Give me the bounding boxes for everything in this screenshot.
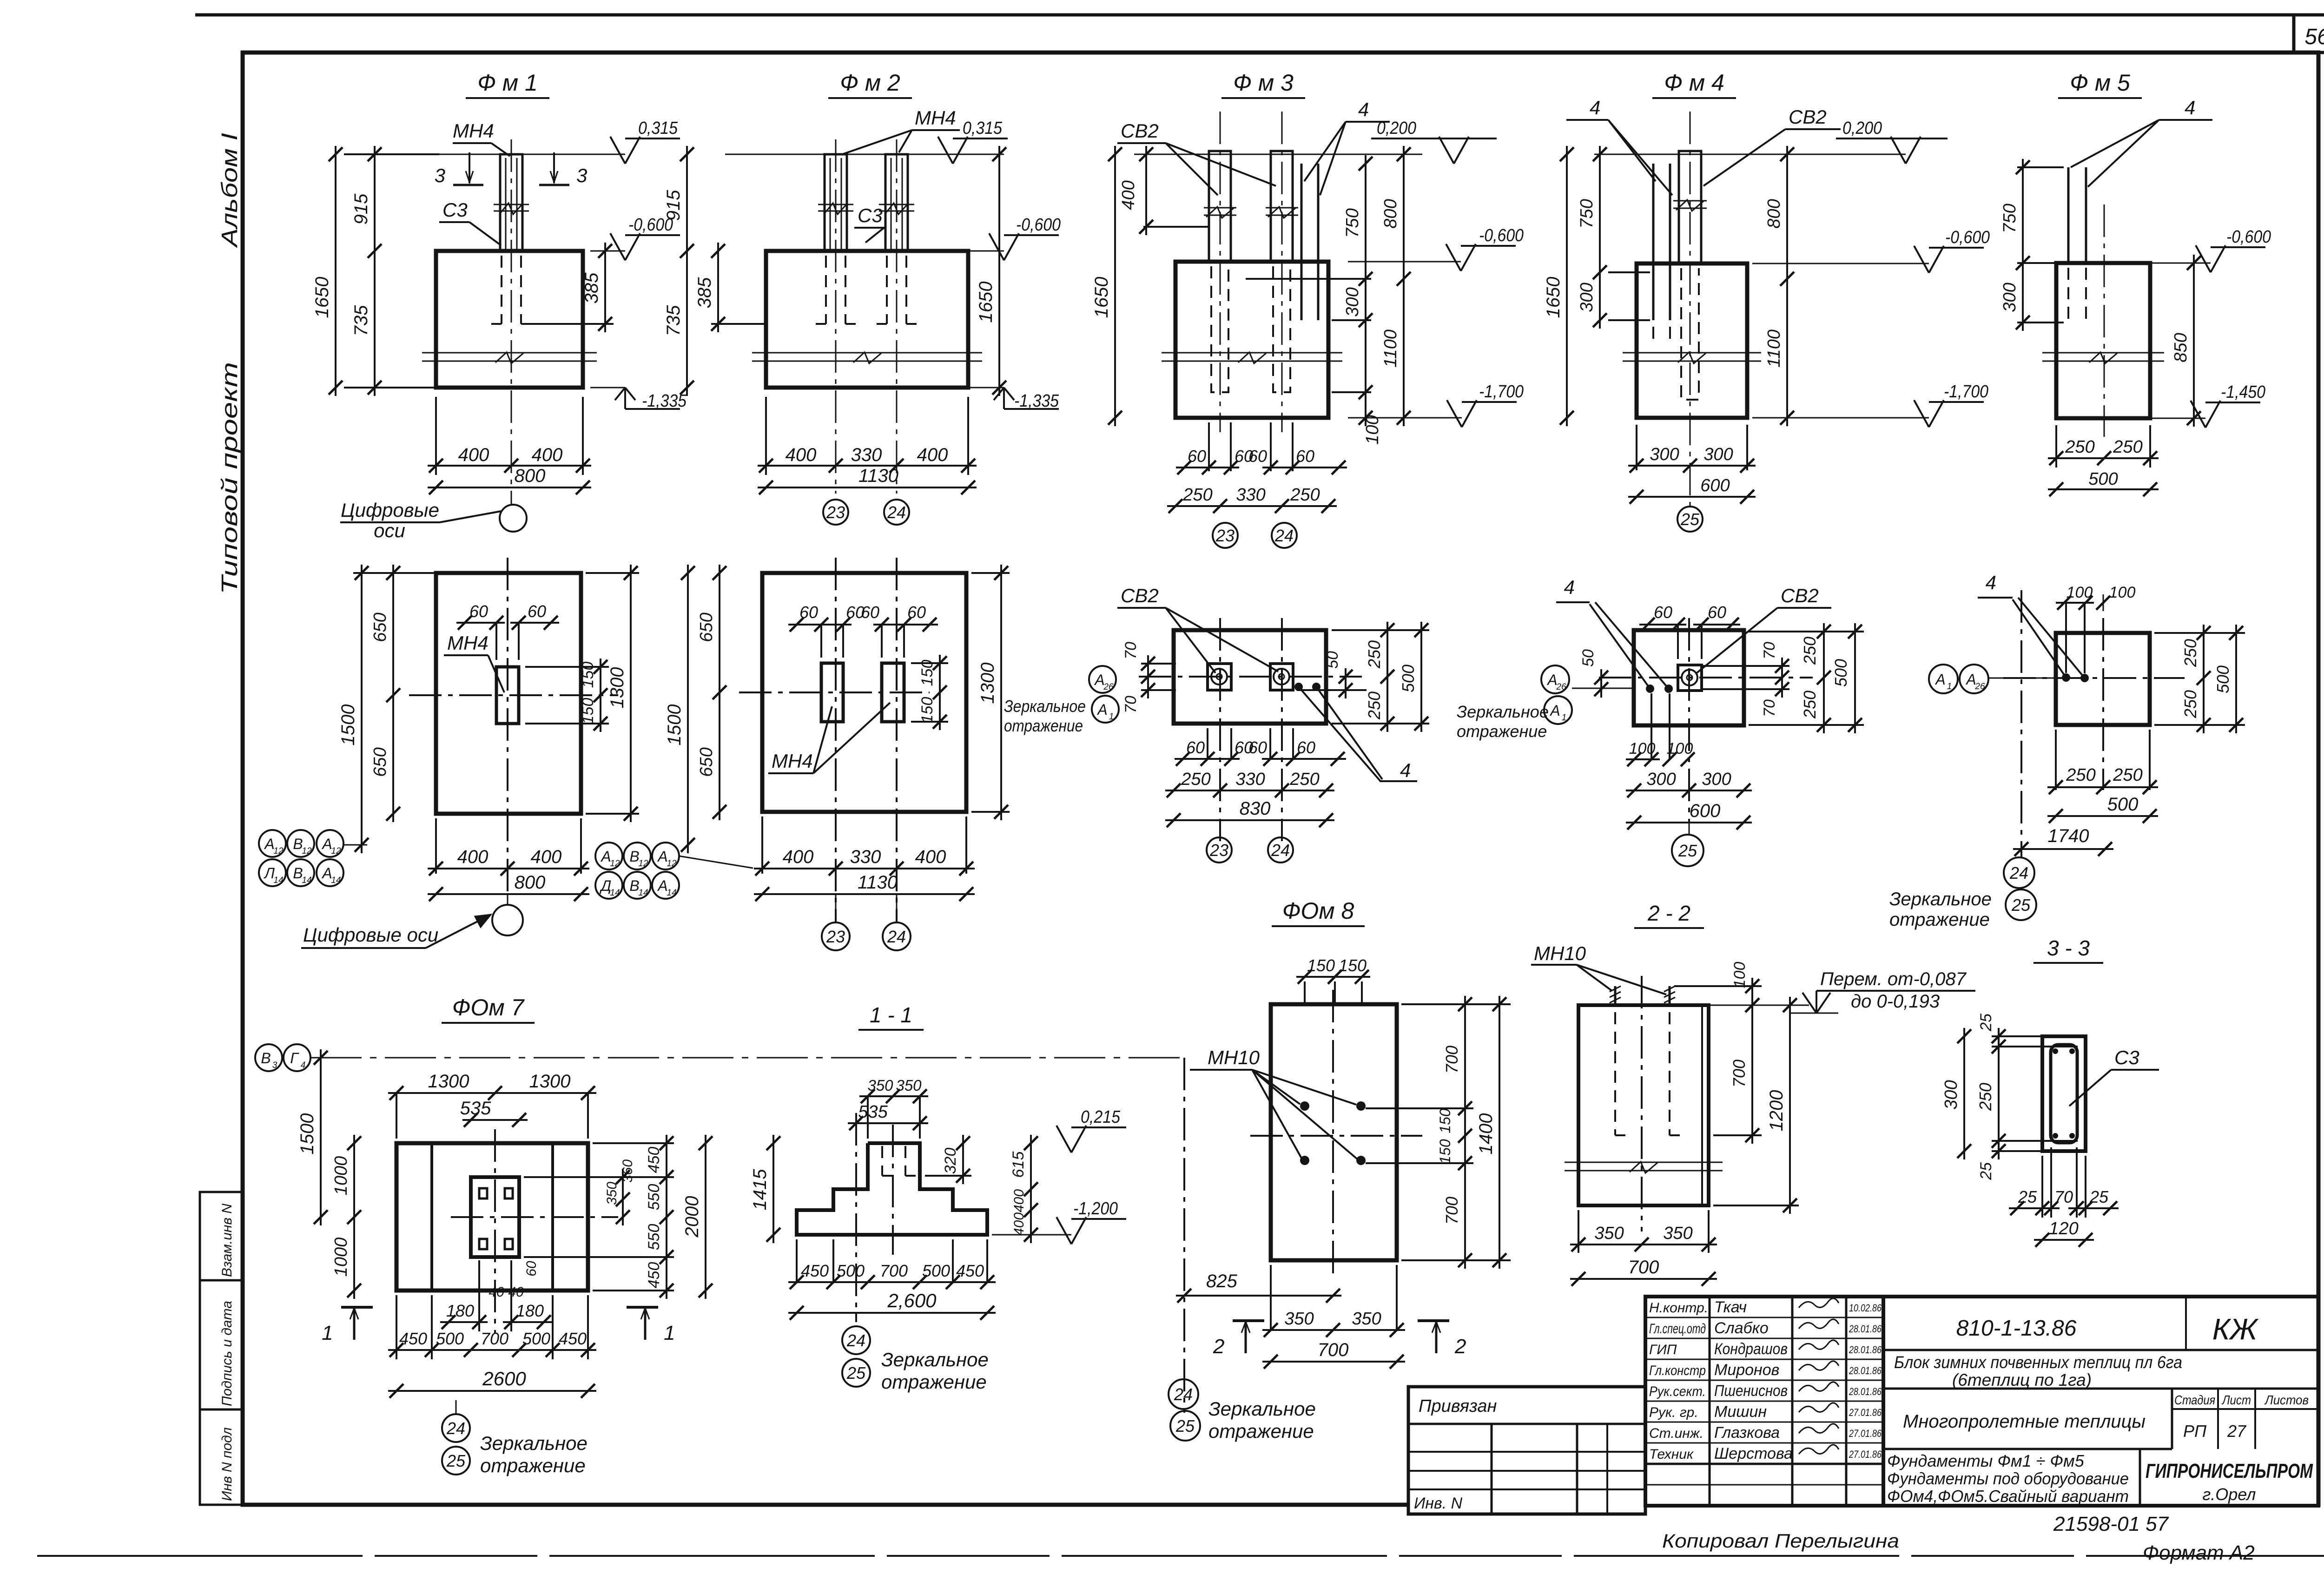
svg-text:385: 385	[694, 277, 715, 308]
svg-text:500: 500	[2088, 469, 2118, 489]
svg-text:500: 500	[837, 1261, 865, 1280]
svg-text:1300: 1300	[428, 1071, 469, 1092]
Фм4 plan dim 50 left	[1600, 669, 1602, 698]
svg-text:С3: С3	[2114, 1047, 2139, 1068]
Фм4 anchor dashed inside	[1652, 268, 1654, 344]
svg-text:400: 400	[1011, 1212, 1027, 1236]
Фм3 level 0.200	[1439, 137, 1454, 164]
svg-text:Фундаменты под оборудование: Фундаменты под оборудование	[1887, 1469, 2129, 1488]
svg-text:1: 1	[1562, 713, 1567, 723]
svg-text:50: 50	[1579, 649, 1597, 667]
svg-text:0,200: 0,200	[1842, 119, 1882, 138]
Фм3 axis circle 24	[1272, 523, 1297, 548]
svg-text:250: 250	[1365, 691, 1384, 720]
svg-text:отражение: отражение	[480, 1455, 586, 1476]
svg-text:МН10: МН10	[1534, 942, 1586, 964]
Фм1 column МН4	[500, 154, 522, 251]
Фм1 dim 800 bottom	[428, 487, 591, 488]
svg-text:1650: 1650	[976, 282, 996, 323]
1-1 level -1.200	[992, 1234, 1071, 1236]
svg-text:810-1-13.86: 810-1-13.86	[1956, 1316, 2077, 1341]
svg-text:350: 350	[1663, 1224, 1692, 1243]
svg-text:-1,450: -1,450	[2221, 382, 2265, 402]
svg-text:4: 4	[1564, 576, 1575, 598]
svg-text:отражение: отражение	[1889, 909, 1990, 930]
Фм3 plan dims 70/70 left	[1141, 663, 1176, 665]
ФОм7 axis circles 24/25 bottom	[442, 1414, 470, 1442]
svg-text:23: 23	[1209, 841, 1228, 860]
Фм2 plan centrelines	[739, 691, 930, 693]
svg-text:27.01.86: 27.01.86	[1849, 1449, 1882, 1460]
svg-text:60: 60	[469, 602, 488, 621]
svg-text:12: 12	[667, 859, 677, 869]
Фм5 plan axis line x=4349	[2020, 590, 2022, 857]
svg-text:700: 700	[1318, 1340, 1349, 1360]
svg-text:0,315: 0,315	[963, 119, 1003, 138]
svg-text:Зеркальное: Зеркальное	[881, 1349, 989, 1370]
svg-text:до 0-0,193: до 0-0,193	[1851, 991, 1940, 1012]
svg-text:Зеркальное: Зеркальное	[1004, 697, 1086, 716]
Фм3 pile dashed continuation	[1211, 266, 1228, 392]
svg-text:ФОм4,ФОм5.Свайный вариант: ФОм4,ФОм5.Свайный вариант	[1887, 1487, 2129, 1506]
svg-text:60: 60	[528, 602, 546, 621]
svg-text:500: 500	[922, 1261, 950, 1280]
svg-text:26: 26	[1974, 682, 1985, 691]
svg-text:СВ2: СВ2	[1121, 585, 1159, 606]
svg-text:-1,335: -1,335	[1014, 391, 1059, 411]
Фм3 plan dim 250/330/250	[1165, 790, 1334, 791]
Фм2 axis circle 23	[823, 500, 848, 525]
svg-text:А: А	[1549, 702, 1560, 719]
Фм4 plan dims 100/100 below	[1651, 693, 1652, 759]
svg-text:24: 24	[446, 1419, 465, 1438]
Фм3 plan anchors 4 dots	[1294, 683, 1303, 691]
svg-text:23: 23	[826, 927, 845, 946]
Фм3 dims 750/300/100 right inner	[1246, 278, 1371, 280]
svg-text:100: 100	[1629, 740, 1656, 757]
Фм3 dim 250/330/250	[1167, 505, 1337, 507]
svg-text:150: 150	[918, 660, 936, 686]
ФОм7 dims 180/180	[478, 1260, 480, 1331]
svg-text:1300: 1300	[607, 667, 627, 709]
svg-text:-0,600: -0,600	[2226, 227, 2271, 247]
svg-text:700: 700	[1442, 1197, 1461, 1225]
svg-text:-0,600: -0,600	[1945, 228, 1990, 247]
svg-text:70: 70	[1122, 642, 1140, 659]
svg-text:14: 14	[667, 888, 676, 898]
svg-text:Рук. гр.: Рук. гр.	[1649, 1405, 1698, 1420]
svg-text:1740: 1740	[2048, 826, 2089, 846]
2-2 dim 100 top right	[1674, 985, 1762, 987]
svg-text:915: 915	[663, 190, 684, 221]
Фм1 dim 400+400 bottom	[435, 397, 437, 475]
Фм2 foundation block	[766, 251, 968, 388]
ФОм7 dim 2600	[388, 1390, 596, 1392]
svg-text:3 - 3: 3 - 3	[2047, 936, 2090, 960]
svg-text:Зеркальное: Зеркальное	[1457, 702, 1549, 721]
Фм2 plan dims 150/150 right	[911, 662, 948, 664]
2-2 break line	[1565, 1162, 1723, 1163]
svg-text:150: 150	[1339, 956, 1367, 975]
svg-text:Ст.инж.: Ст.инж.	[1649, 1426, 1703, 1441]
svg-text:700: 700	[1442, 1046, 1461, 1073]
Фм2 plan anchor plates МН4	[821, 663, 843, 722]
Фм5 anchor dashed inside	[2067, 268, 2069, 323]
svg-text:60: 60	[1186, 738, 1205, 757]
svg-text:850: 850	[2171, 333, 2191, 362]
Фм3 level -1.700	[1348, 417, 1462, 419]
2-2 wall section	[1578, 1005, 1709, 1205]
svg-text:60: 60	[861, 603, 879, 622]
Фм3 plan dim 830	[1165, 819, 1334, 821]
svg-text:14: 14	[302, 876, 311, 885]
svg-text:180: 180	[516, 1301, 544, 1320]
svg-text:28.01.86: 28.01.86	[1849, 1323, 1882, 1335]
svg-text:С3: С3	[442, 199, 468, 221]
Фм4 plan sleeve box СВ2	[1678, 665, 1702, 691]
svg-text:1415: 1415	[750, 1169, 770, 1211]
ФОм7 section marks 1-1	[341, 1306, 373, 1309]
title block right part frame	[1883, 1297, 2318, 1506]
svg-text:14: 14	[331, 876, 341, 885]
svg-text:400: 400	[917, 445, 948, 465]
svg-text:3: 3	[576, 165, 587, 186]
Фм3 dims 60 bottom	[1208, 422, 1210, 471]
Фм4 level 0.200	[1891, 137, 1906, 164]
svg-text:Ф м 3: Ф м 3	[1233, 70, 1294, 96]
Фм2 plan axis circles group right	[595, 843, 622, 869]
svg-text:А: А	[657, 877, 667, 894]
svg-text:Зеркальное: Зеркальное	[480, 1432, 588, 1454]
svg-text:1 - 1: 1 - 1	[870, 1003, 912, 1027]
svg-text:800: 800	[515, 466, 546, 486]
ФОм7 centrelines	[451, 1216, 618, 1218]
svg-text:25: 25	[446, 1451, 466, 1470]
svg-text:Лист: Лист	[2221, 1393, 2251, 1407]
svg-text:-1,200: -1,200	[1073, 1199, 1118, 1218]
svg-text:28.01.86: 28.01.86	[1849, 1386, 1882, 1397]
sheet top edge line	[195, 13, 2324, 17]
Фм1 foundation block	[436, 251, 583, 388]
Фм5 dim 750/300 left	[2017, 166, 2064, 168]
svg-text:150: 150	[579, 662, 597, 688]
svg-text:3: 3	[272, 1060, 277, 1070]
svg-text:А: А	[1096, 701, 1107, 718]
svg-text:С3: С3	[858, 204, 883, 226]
svg-text:250: 250	[2181, 690, 2200, 718]
svg-text:4: 4	[1986, 572, 1996, 593]
svg-text:Кондрашов: Кондрашов	[1714, 1340, 1788, 1358]
Фм4 centre axis	[1690, 112, 1691, 507]
Фм2 level -1.335 right	[968, 387, 1004, 389]
svg-text:450: 450	[645, 1147, 663, 1173]
svg-text:450: 450	[399, 1329, 427, 1348]
svg-text:2,600: 2,600	[887, 1290, 937, 1311]
Фм5 plan slab	[2056, 633, 2150, 725]
Фм4 axis circle 25	[1677, 507, 1703, 532]
svg-text:г.Орел: г.Орел	[2203, 1485, 2256, 1504]
svg-text:60: 60	[799, 603, 818, 622]
svg-text:Перем. от-0,087: Перем. от-0,087	[1820, 969, 1967, 989]
svg-text:830: 830	[1240, 798, 1271, 819]
Фм2 dim 915/735 left	[686, 146, 688, 396]
svg-text:250: 250	[2065, 437, 2094, 457]
ФОм7 axis line В3-Г4	[310, 1057, 1188, 1059]
svg-text:1100: 1100	[1381, 329, 1400, 368]
ФОм8 section marks 2-2	[1233, 1319, 1264, 1322]
svg-text:Д: Д	[600, 877, 612, 894]
svg-text:800: 800	[1764, 199, 1784, 228]
1-1 dim 350/350 top	[867, 1096, 869, 1139]
svg-text:250: 250	[1365, 640, 1384, 669]
Фм3 top level line	[1134, 154, 1422, 155]
svg-text:Блок зимних почвенных тепли: Блок зимних почвенных теплиц пл 6га	[1894, 1353, 2182, 1372]
Фм5 dim 850 right	[2193, 255, 2195, 427]
svg-text:400: 400	[783, 847, 814, 867]
svg-text:800: 800	[515, 872, 546, 893]
svg-text:400: 400	[1119, 180, 1138, 210]
svg-text:60: 60	[524, 1261, 539, 1277]
Фм2 top level line	[725, 154, 1004, 155]
svg-text:250: 250	[1181, 770, 1210, 789]
svg-text:25: 25	[1680, 510, 1700, 529]
svg-text:25: 25	[1977, 1014, 1995, 1032]
svg-text:Цифровые оси: Цифровые оси	[303, 924, 438, 946]
Фм1 plan dim 1500 left	[353, 572, 442, 574]
svg-text:1130: 1130	[858, 466, 898, 486]
svg-text:-0,600: -0,600	[1016, 215, 1061, 235]
Фм4 top level line	[1594, 154, 1906, 155]
svg-text:А: А	[321, 836, 332, 852]
svg-text:4: 4	[1590, 97, 1600, 119]
svg-text:27: 27	[2227, 1422, 2247, 1441]
svg-text:28.01.86: 28.01.86	[1849, 1344, 1882, 1356]
Фм1 plan axis circles group left	[259, 830, 286, 857]
page number box 56	[2292, 15, 2296, 53]
Фм1 centre axis line	[511, 139, 512, 504]
1-1 anchor dashed in pedestal	[881, 1146, 883, 1176]
ФОм8 dim 1400	[1499, 996, 1500, 1269]
svg-text:500: 500	[1399, 665, 1418, 692]
3-3 column cross-section	[2042, 1036, 2086, 1151]
svg-text:100: 100	[1667, 740, 1693, 757]
svg-text:12: 12	[302, 846, 312, 856]
svg-text:385: 385	[581, 272, 602, 303]
svg-text:800: 800	[1381, 199, 1400, 228]
svg-text:25: 25	[1977, 1162, 1995, 1180]
Фм4 plan dims 60/60 top	[1677, 625, 1679, 659]
Фм4 anchor bars 4	[1652, 164, 1655, 320]
svg-text:300: 300	[1577, 283, 1597, 312]
ФОм7 dim 1000/1000 left	[353, 1135, 355, 1299]
svg-text:2000: 2000	[682, 1196, 702, 1238]
svg-text:МН10: МН10	[1208, 1047, 1260, 1068]
ФОм8 dim lines right 700/150/150/700	[1366, 1107, 1473, 1109]
ФОм8 dim 350/350	[1270, 1265, 1272, 1330]
ФОм7 bottom chain 450/500/700/500/450	[396, 1295, 397, 1359]
title block Привязан table	[1408, 1387, 1645, 1514]
title block Стадия/Лист/Листов table	[2171, 1389, 2173, 1449]
svg-text:450: 450	[559, 1329, 587, 1348]
svg-text:300: 300	[1703, 445, 1733, 464]
svg-text:150: 150	[579, 698, 597, 724]
svg-text:3: 3	[435, 165, 445, 186]
svg-text:Гл.спец.отд: Гл.спец.отд	[1649, 1321, 1706, 1337]
svg-text:735: 735	[351, 305, 371, 336]
svg-text:400: 400	[457, 847, 489, 867]
ФОм8 slab	[1271, 1004, 1397, 1260]
Фм5 dim 250/250 bottom	[2055, 425, 2057, 468]
sidebar box Подпись и дата	[200, 1280, 243, 1409]
svg-text:отражение: отражение	[881, 1371, 987, 1393]
Фм4 plan axis circle 25	[1689, 823, 1690, 835]
svg-text:Формат А2: Формат А2	[2143, 1541, 2255, 1564]
1-1 dim 1415 left	[772, 1135, 774, 1243]
svg-text:400: 400	[532, 445, 563, 465]
svg-text:ФОм 7: ФОм 7	[452, 994, 525, 1021]
svg-text:350: 350	[1284, 1309, 1314, 1329]
svg-text:1: 1	[664, 1322, 675, 1344]
Фм1 block break line	[422, 352, 597, 354]
svg-text:12: 12	[610, 859, 620, 869]
svg-text:350: 350	[867, 1077, 893, 1094]
ФОм8 dim 700	[1262, 1361, 1405, 1363]
svg-text:Ф м 1: Ф м 1	[477, 70, 538, 96]
Фм4 block break line	[1623, 352, 1761, 354]
svg-text:Шерстова: Шерстова	[1714, 1445, 1793, 1462]
Фм2 dim 1130 bottom	[758, 487, 977, 488]
Фм4 level -1.700	[1752, 417, 1929, 419]
svg-text:12: 12	[331, 846, 341, 856]
svg-text:СВ2: СВ2	[1789, 106, 1827, 128]
svg-text:14: 14	[273, 876, 283, 885]
2-2 dim 350/350 bottom	[1578, 1210, 1579, 1253]
svg-text:250: 250	[2113, 437, 2142, 457]
svg-text:400: 400	[1011, 1189, 1027, 1212]
Фм4 plan dims 70/70 right	[1702, 665, 1789, 667]
Фм1 plan blank axis circle bottom	[507, 894, 508, 905]
3-3 dims bottom 25/70/25	[2041, 1156, 2043, 1218]
svg-text:250: 250	[2181, 639, 2200, 667]
svg-text:330: 330	[850, 847, 881, 867]
Фм1 level -0.600	[590, 250, 625, 252]
Фм2 plan dim 1300 right	[971, 572, 1010, 574]
Фм4 plan slab	[1634, 630, 1744, 725]
svg-text:Цифровые: Цифровые	[341, 499, 439, 521]
svg-text:250: 250	[1976, 1083, 1995, 1111]
svg-text:1100: 1100	[1764, 329, 1784, 368]
Фм4 plan dim 300/300	[1626, 790, 1752, 791]
svg-text:150: 150	[1437, 1108, 1453, 1133]
2-2 dim 1200	[1713, 1205, 1799, 1206]
Фм1 plan anchor plate МН4	[496, 667, 519, 724]
Фм3 plan axis circles 23/24	[1207, 837, 1232, 863]
Фм3 dim 1650 left	[1114, 146, 1116, 426]
svg-text:Листов: Листов	[2264, 1393, 2309, 1407]
svg-text:100: 100	[2109, 584, 2136, 601]
svg-text:Типовой проект: Типовой проект	[218, 362, 242, 594]
Фм2 plan slab	[762, 573, 966, 812]
1-1 centreline	[892, 1125, 894, 1255]
svg-text:500: 500	[1831, 659, 1850, 687]
svg-text:Инв N подл: Инв N подл	[219, 1427, 235, 1501]
svg-text:300: 300	[1702, 770, 1731, 789]
Фм5 level -1.450	[2150, 418, 2205, 419]
svg-text:100: 100	[2067, 584, 2093, 601]
Фм5 plan dims 250/250/500 right	[2154, 632, 2245, 634]
Фм2 dim 400/330/400 bottom	[765, 397, 767, 475]
Фм4 dim 300/300 bottom	[1636, 425, 1637, 470]
svg-text:А: А	[657, 848, 667, 865]
Фм2 plan dim 1130 bottom	[754, 893, 975, 895]
svg-text:1650: 1650	[312, 277, 332, 318]
svg-text:300: 300	[1650, 445, 1679, 464]
svg-text:400: 400	[531, 847, 562, 867]
Фм1 anchor dashed bars	[501, 256, 502, 324]
svg-text:Стадия: Стадия	[2174, 1393, 2215, 1407]
svg-text:700: 700	[880, 1261, 908, 1280]
svg-text:25: 25	[2011, 896, 2031, 915]
svg-text:650: 650	[370, 612, 390, 642]
Фм5 dim 500 bottom	[2048, 488, 2159, 490]
Фм3 plan dims 50/250/250/500 right	[1297, 689, 1367, 691]
Фм3 dims 800/1100 right outer	[1403, 146, 1405, 426]
svg-text:28.01.86: 28.01.86	[1849, 1365, 1882, 1376]
ФОм7 dim 1300/1300 top	[396, 1093, 397, 1139]
svg-text:Зеркальное: Зеркальное	[1208, 1398, 1316, 1420]
svg-text:24: 24	[2009, 863, 2028, 882]
svg-text:60: 60	[1297, 738, 1315, 757]
Фм1 level 0.315	[610, 137, 625, 164]
svg-text:300: 300	[1941, 1080, 1961, 1109]
Фм4 plan centrelines	[1599, 677, 1813, 678]
svg-text:Глазкова: Глазкова	[1714, 1424, 1780, 1442]
svg-text:25: 25	[2018, 1187, 2037, 1206]
Фм3 plan centrelines	[1139, 676, 1362, 678]
svg-text:Рук.сект.: Рук.сект.	[1649, 1384, 1706, 1399]
svg-text:21598-01 57: 21598-01 57	[2053, 1513, 2169, 1535]
1-1 stepped foundation profile	[797, 1143, 987, 1235]
Фм1 top level line	[436, 154, 625, 155]
Фм2 column МН4 left	[825, 154, 847, 251]
svg-text:-1,700: -1,700	[1944, 382, 1988, 402]
svg-text:320: 320	[942, 1148, 959, 1174]
Фм3 dim 400 left	[1143, 226, 1208, 228]
title block signature table	[1645, 1297, 1883, 1506]
svg-text:МН4: МН4	[453, 120, 494, 142]
svg-text:150: 150	[918, 697, 936, 724]
Фм2 plan dim 1500 left	[687, 565, 689, 853]
svg-text:250: 250	[2113, 765, 2142, 785]
ФОм7 pedestal	[471, 1177, 519, 1257]
Фм2 anchor dashed bars	[825, 256, 827, 324]
svg-text:250: 250	[1800, 691, 1819, 719]
svg-text:14: 14	[638, 888, 648, 898]
svg-text:750: 750	[1577, 199, 1597, 228]
Фм5 anchor bars 4	[2067, 167, 2070, 263]
svg-text:735: 735	[663, 305, 684, 336]
ФОм7 slab	[396, 1143, 588, 1291]
svg-text:0,315: 0,315	[638, 119, 678, 138]
svg-text:А: А	[1094, 672, 1104, 688]
svg-text:4: 4	[2185, 97, 2195, 119]
Фм2 column МН4 right	[885, 154, 908, 251]
1-1 dim 535 top	[848, 1122, 928, 1124]
svg-text:330: 330	[1236, 485, 1265, 505]
svg-text:60: 60	[1248, 447, 1267, 466]
Фм2 plan dim 400/330/400 bottom	[761, 817, 763, 874]
svg-text:А: А	[321, 865, 332, 882]
